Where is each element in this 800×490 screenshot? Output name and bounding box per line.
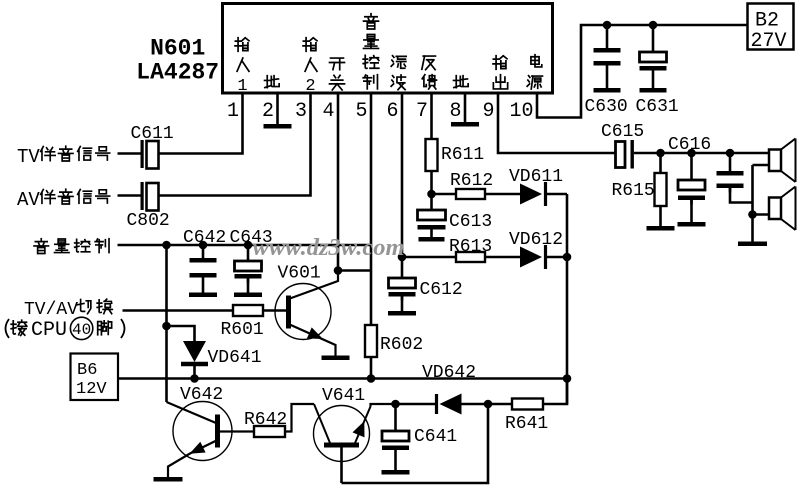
svg-text:C641: C641: [414, 427, 457, 447]
svg-text:5: 5: [355, 100, 367, 123]
svg-text:R641: R641: [505, 414, 548, 434]
svg-text:R615: R615: [612, 181, 655, 201]
svg-text:R602: R602: [380, 335, 423, 355]
svg-text:3: 3: [295, 100, 307, 123]
svg-text:VD641: VD641: [208, 348, 262, 368]
svg-text:C613: C613: [449, 212, 492, 232]
svg-text:C611: C611: [131, 124, 174, 144]
svg-text:9: 9: [482, 100, 494, 123]
svg-text:R642: R642: [244, 410, 287, 430]
svg-text:2: 2: [262, 100, 274, 123]
svg-text:1: 1: [227, 100, 239, 123]
svg-text:CPU: CPU: [31, 319, 67, 342]
svg-text:C631: C631: [636, 97, 679, 117]
svg-text:R613: R613: [449, 237, 492, 257]
svg-text:2: 2: [305, 77, 315, 96]
svg-text:B6: B6: [77, 361, 97, 380]
svg-text:R611: R611: [441, 145, 484, 165]
svg-text:7: 7: [416, 100, 428, 123]
svg-text:4: 4: [322, 100, 334, 123]
svg-text:C616: C616: [668, 135, 711, 155]
svg-text:V641: V641: [322, 386, 365, 406]
svg-text:LA4287: LA4287: [136, 60, 219, 86]
svg-text:R612: R612: [450, 171, 493, 191]
svg-text:C615: C615: [601, 122, 644, 142]
svg-text:8: 8: [449, 100, 461, 123]
svg-text:AV: AV: [17, 189, 40, 211]
svg-text:www.dz3w.com: www.dz3w.com: [253, 234, 405, 261]
svg-text:C802: C802: [127, 211, 170, 231]
svg-text:VD612: VD612: [509, 230, 563, 250]
svg-text:40: 40: [72, 321, 91, 339]
svg-text:V601: V601: [278, 264, 321, 284]
svg-text:6: 6: [386, 100, 398, 123]
svg-text:TV: TV: [17, 146, 40, 168]
svg-text:12V: 12V: [76, 380, 107, 399]
svg-text:VD642: VD642: [422, 363, 476, 383]
svg-text:27V: 27V: [751, 30, 787, 53]
svg-text:C612: C612: [420, 280, 463, 300]
svg-text:R601: R601: [221, 320, 264, 340]
svg-text:N601: N601: [150, 36, 205, 62]
svg-text:VD611: VD611: [509, 167, 563, 187]
svg-text:V642: V642: [180, 385, 223, 405]
svg-text:C642: C642: [183, 228, 226, 248]
svg-text:10: 10: [509, 100, 533, 123]
svg-text:1: 1: [237, 77, 247, 96]
svg-text:TV/AV: TV/AV: [24, 300, 78, 320]
svg-text:C630: C630: [585, 97, 628, 117]
